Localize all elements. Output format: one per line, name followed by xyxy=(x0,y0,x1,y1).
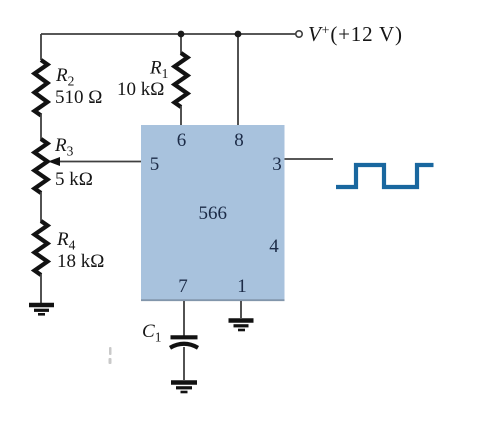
ground (pin 1) xyxy=(229,321,254,331)
svg-text:4: 4 xyxy=(269,236,279,257)
svg-text:1: 1 xyxy=(237,276,247,297)
junction node (rail/R1) xyxy=(178,31,185,38)
wire C1 to ground xyxy=(183,347,185,380)
svg-text:3: 3 xyxy=(272,154,282,175)
resistor R2 xyxy=(35,60,48,116)
square wave output xyxy=(336,165,434,187)
svg-text:566: 566 xyxy=(199,203,228,224)
wire left branch top (rail to R2) xyxy=(40,34,42,60)
wire rail to pin 8 xyxy=(237,34,239,125)
resistor R4 xyxy=(35,221,48,275)
faint scan smudge xyxy=(109,347,112,364)
IC bottom edge shading xyxy=(141,299,285,301)
wire top rail xyxy=(41,33,296,35)
wire pin 1 to ground xyxy=(240,301,242,318)
wire R1 to pin 6 xyxy=(180,106,182,125)
svg-text:510 Ω: 510 Ω xyxy=(55,87,102,108)
svg-text:8: 8 xyxy=(234,130,244,151)
ground (C1) xyxy=(171,383,197,393)
wire R2 to R3 xyxy=(40,114,42,140)
svg-text:7: 7 xyxy=(178,276,188,297)
IC U1 566 body xyxy=(141,125,285,301)
terminal V+ xyxy=(296,31,302,37)
wire R3 to R4 xyxy=(40,192,42,222)
capacitor C1 xyxy=(170,337,198,348)
svg-text:6: 6 xyxy=(177,130,187,151)
resistor R1 xyxy=(175,53,188,107)
ground (left branch) xyxy=(29,305,54,314)
svg-text:5: 5 xyxy=(150,154,160,175)
svg-text:18 kΩ: 18 kΩ xyxy=(57,251,104,272)
svg-text:5 kΩ: 5 kΩ xyxy=(55,169,93,190)
junction node (rail/pin 8) xyxy=(235,31,242,38)
wire pin 5 (wiper) xyxy=(57,161,141,163)
wire pin 3 output xyxy=(285,158,334,160)
wiper arrowhead R3 xyxy=(48,157,60,166)
wire rail to R1 xyxy=(180,34,182,54)
wire R4 to ground xyxy=(40,274,42,303)
wire pin 7 to C1 xyxy=(183,301,185,336)
potentiometer R3 xyxy=(35,139,48,193)
svg-text:10 kΩ: 10 kΩ xyxy=(117,79,164,100)
